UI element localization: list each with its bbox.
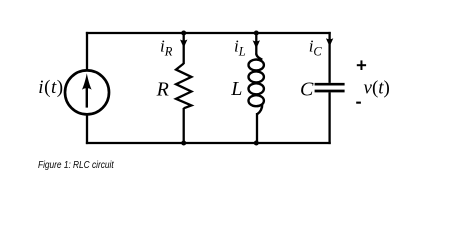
capacitor C top plate: [315, 83, 345, 86]
svg-text:R: R: [156, 79, 169, 101]
current arrow iC on wire: [326, 38, 333, 46]
label minus sign: [356, 102, 361, 104]
wire resistor branch lower: [183, 108, 185, 143]
node dot resistor top: [181, 31, 186, 36]
svg-text:C: C: [300, 79, 314, 101]
current source I1 arrow: [82, 73, 92, 107]
node dot inductor bottom: [254, 141, 259, 146]
wire bottom horizontal: [86, 142, 331, 144]
svg-text:v(t): v(t): [364, 77, 390, 98]
current arrow iL on wire: [253, 40, 260, 48]
wire inductor branch upper: [255, 33, 257, 55]
current arrow iR on wire: [180, 40, 187, 48]
wire left vertical lower: [86, 114, 88, 144]
wire inductor branch lower: [256, 113, 258, 143]
resistor R zigzag: [176, 64, 191, 109]
svg-text:L: L: [230, 78, 242, 100]
inductor L coil: [249, 54, 264, 115]
label plus sign: [357, 60, 366, 70]
wire capacitor branch upper: [328, 32, 330, 83]
svg-text:iC: iC: [309, 37, 323, 59]
node dot resistor bottom: [181, 141, 186, 146]
capacitor C bottom plate: [315, 90, 345, 93]
node dot inductor top: [254, 31, 259, 36]
wire resistor branch upper: [183, 33, 185, 64]
svg-text:iR: iR: [160, 37, 173, 59]
wire capacitor branch lower: [328, 92, 330, 144]
svg-text:iL: iL: [234, 37, 246, 59]
caption Figure 1: RLC circuit: [38, 161, 114, 171]
svg-text:i(t): i(t): [38, 77, 63, 98]
wire left vertical upper: [86, 32, 88, 71]
current source I1 circle: [65, 70, 109, 114]
wire top horizontal: [86, 32, 331, 34]
